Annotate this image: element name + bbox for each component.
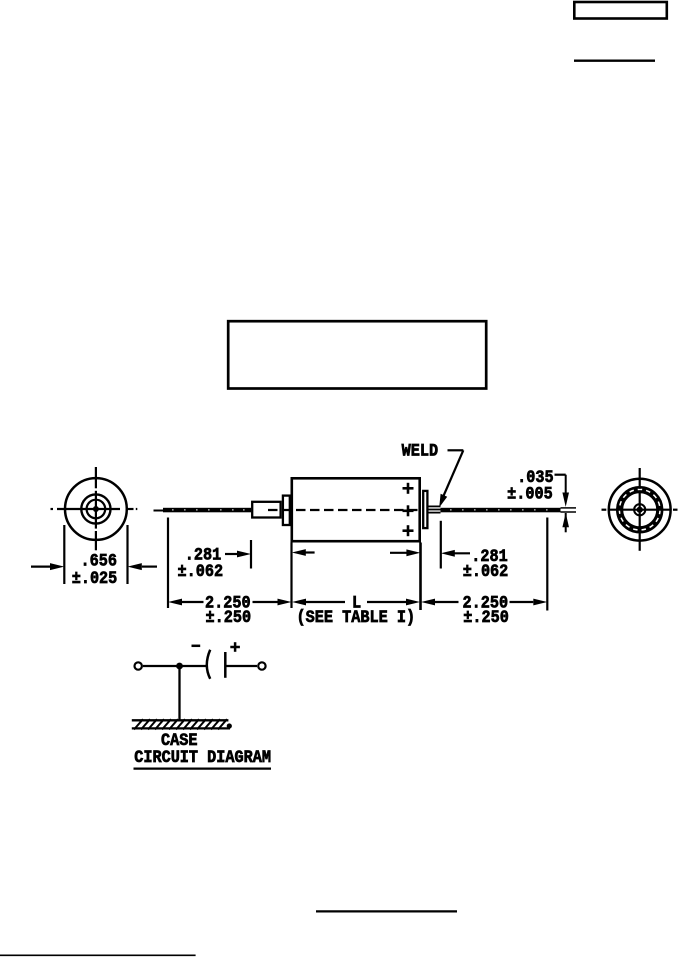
extension line stub left <box>250 540 252 569</box>
left end view center dot <box>93 506 99 512</box>
left ferrule <box>283 496 290 525</box>
svg-text:±.250: ±.250 <box>206 607 252 627</box>
right end view outer circle <box>609 479 671 541</box>
left lead wire <box>163 508 251 513</box>
dim .035 down arrow <box>562 493 569 507</box>
dim 2.250 left value <box>205 593 251 613</box>
table box center <box>228 321 486 388</box>
svg-text:±.062: ±.062 <box>463 561 509 581</box>
footer center rule <box>316 910 457 912</box>
right end view center dot <box>637 507 643 513</box>
dim L note <box>297 607 416 627</box>
wire junction to case <box>178 666 180 720</box>
dim .281 right value <box>471 546 508 566</box>
polarity plus bottom <box>403 525 414 536</box>
dim .656 extension line left <box>63 525 65 584</box>
dim .035 leader <box>555 475 566 494</box>
rule under title box <box>574 60 655 62</box>
left weld stub <box>252 502 280 518</box>
dim .656 left arrow <box>31 563 64 570</box>
WELD label <box>402 441 439 461</box>
svg-text:±.250: ±.250 <box>463 607 509 627</box>
dim .656 value <box>80 551 116 571</box>
dim .281 right inner arrow <box>390 549 420 556</box>
dim L arrow left <box>292 599 345 606</box>
capacitor C1 curved plate <box>207 650 210 679</box>
dim .656 tolerance <box>72 568 118 588</box>
dim 2.250 right tolerance <box>463 607 509 627</box>
polarity plus top <box>403 483 414 494</box>
circuit right terminal <box>258 662 265 669</box>
left end view vertical centerline <box>95 467 97 550</box>
polarity plus middle <box>403 505 414 516</box>
left end view horizontal centerline <box>51 508 138 510</box>
minus polarity mark <box>192 645 201 648</box>
svg-text:±.062: ±.062 <box>178 561 224 581</box>
right end view knurl ring <box>619 489 660 530</box>
dim .656 extension line right <box>126 525 128 584</box>
wire capacitor to right terminal <box>227 665 258 667</box>
dim .035 up arrow <box>562 513 569 532</box>
right lead hollow tip <box>561 508 577 512</box>
svg-text:±.005: ±.005 <box>507 483 553 503</box>
case ground bar hatched <box>132 719 232 729</box>
svg-text:WELD: WELD <box>402 441 439 461</box>
footer left rule <box>0 954 196 956</box>
right end view inner circle <box>634 504 645 515</box>
dim L arrow right <box>367 599 420 606</box>
dim .035 value <box>517 467 554 487</box>
left end view outer circle <box>65 478 127 540</box>
CASE label <box>161 730 198 750</box>
WELD leader <box>439 450 463 507</box>
dim .281 right tolerance <box>463 561 509 581</box>
weld stub lines <box>429 506 441 512</box>
CIRCUIT DIAGRAM label <box>134 747 271 767</box>
extension line lead right <box>546 518 548 611</box>
dim 2.250 left tolerance <box>206 607 252 627</box>
dim .281 left tolerance <box>178 561 224 581</box>
dim .281 right leader arrow <box>441 550 470 557</box>
dim 2.250 right arrow left <box>421 599 459 606</box>
extension line weld right <box>440 521 442 569</box>
title box top right <box>574 2 667 19</box>
left lead wire thin tip <box>154 510 164 512</box>
svg-text:CIRCUIT DIAGRAM: CIRCUIT DIAGRAM <box>134 747 271 767</box>
left end view middle circle <box>81 494 110 523</box>
dim .281 left inner arrow <box>292 549 315 556</box>
right end view horizontal centerline <box>602 509 678 511</box>
CIRCUIT DIAGRAM underline <box>134 767 272 769</box>
circuit left terminal <box>135 662 142 669</box>
right seal disc <box>423 491 427 528</box>
svg-text:±.025: ±.025 <box>72 568 118 588</box>
extension line lead left <box>167 518 169 609</box>
dim 2.250 right arrow right <box>510 599 548 606</box>
plus polarity mark <box>230 642 240 652</box>
capacitor C1 straight plate <box>224 652 227 678</box>
extension line body right <box>419 543 422 611</box>
wire left terminal to capacitor <box>143 665 208 667</box>
dim L value <box>352 593 361 613</box>
dim .035 tolerance <box>507 483 553 503</box>
dim .281 left leader arrow <box>225 551 251 558</box>
dim .281 left value <box>185 544 222 564</box>
extension line body left <box>290 543 292 609</box>
right lead wire <box>441 508 561 513</box>
body centerline dashed <box>268 509 419 511</box>
dim 2.250 left arrow right <box>253 599 292 606</box>
capacitor body <box>292 478 420 541</box>
dim 2.250 right value <box>463 592 509 612</box>
right end view vertical centerline <box>639 468 641 551</box>
dim 2.250 left arrow left <box>168 599 204 606</box>
junction node <box>176 663 183 670</box>
dim .656 right arrow <box>128 563 158 570</box>
svg-text:(SEE TABLE I): (SEE TABLE I) <box>297 607 416 627</box>
left end view inner circle <box>87 500 106 519</box>
